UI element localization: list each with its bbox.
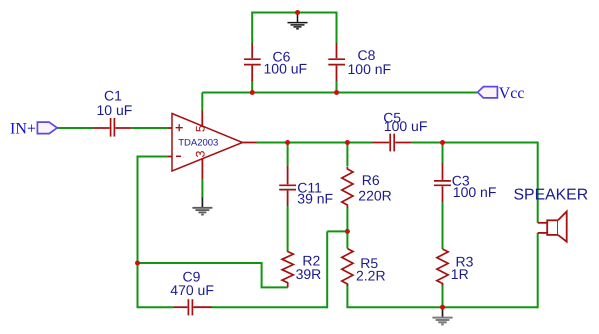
wire feedback horizontal to inverting input [138, 156, 168, 158]
svg-text:2.2R: 2.2R [356, 268, 386, 284]
wire output left segment [257, 142, 373, 144]
svg-text:R6: R6 [362, 172, 380, 188]
svg-text:100 nF: 100 nF [453, 184, 497, 200]
wire top loop right vertical [336, 12, 338, 44]
ground op-amp [192, 198, 212, 215]
capacitor C3 [434, 163, 451, 202]
wire pin5 riser [201, 93, 203, 111]
wire junction to R5 top [346, 231, 348, 248]
capacitor C9 [173, 299, 212, 315]
wire C1 to op-amp [132, 127, 168, 129]
wire input from port to C1 [58, 127, 94, 129]
svg-text:100 nF: 100 nF [348, 61, 392, 77]
svg-text:39 nF: 39 nF [297, 191, 333, 207]
resistor R6 [342, 167, 353, 208]
junction R6 R5 [345, 229, 350, 234]
wire Vcc rail [202, 92, 477, 94]
wire C9 right to riser [212, 306, 327, 308]
wire R5 bottom [346, 284, 348, 307]
wire C11 top [287, 142, 289, 167]
svg-text:470 uF: 470 uF [170, 282, 214, 298]
capacitor C8 [328, 43, 345, 81]
svg-text:1R: 1R [451, 266, 469, 282]
wire C6 bottom to Vcc rail [251, 81, 253, 93]
junction output C11 [285, 140, 290, 145]
svg-text:100 uF: 100 uF [264, 60, 308, 76]
wire output right segment [412, 142, 538, 144]
wire top ground loop horizontal [252, 12, 337, 14]
wire C3 to R3 [442, 202, 444, 249]
capacitor C5 [373, 134, 412, 152]
svg-text:10 uF: 10 uF [97, 102, 133, 118]
svg-text:220R: 220R [358, 188, 391, 204]
svg-text:IN+: IN+ [10, 120, 36, 137]
wire C9 left lead wire [137, 306, 174, 308]
capacitor C11 [279, 166, 296, 206]
junction output C3 [440, 140, 445, 145]
junction ground rail [440, 305, 445, 310]
junction C8 rail [334, 90, 339, 95]
op-amp U1 TDA2003 [167, 111, 256, 180]
wire jog down [261, 262, 263, 287]
ground bottom [432, 308, 452, 325]
wire R6 top [346, 142, 348, 167]
port IN+ [37, 122, 57, 134]
svg-text:Vcc: Vcc [499, 85, 525, 102]
junction feedback node [135, 261, 140, 266]
wire R6 bottom to junction [346, 208, 348, 232]
wire jog to R2 bottom [261, 286, 288, 288]
svg-text:SPEAKER: SPEAKER [514, 186, 589, 203]
wire bottom ground rail [346, 306, 537, 308]
junction output R6 [345, 140, 350, 145]
capacitor C6 [244, 43, 261, 81]
wire C9 riser up [326, 231, 328, 308]
svg-text:100 uF: 100 uF [384, 118, 428, 134]
wire speaker top drop [537, 142, 539, 223]
wire node A to R2 jog right [138, 262, 262, 264]
wire R3 bottom [442, 284, 444, 308]
junction C6 rail [250, 90, 255, 95]
wire C3 top [442, 142, 444, 164]
wire speaker bottom riser [537, 233, 539, 308]
wire C8 bottom to Vcc rail [336, 81, 338, 93]
wire top loop left vertical [251, 12, 253, 44]
svg-text:3: 3 [194, 150, 208, 157]
junction top ground [295, 10, 300, 15]
resistor R5 [342, 249, 353, 287]
wire pin3 to ground [201, 179, 203, 198]
wire node A down to C9 [137, 263, 139, 307]
wire riser to R6-R5 junction [327, 230, 347, 232]
svg-text:39R: 39R [296, 266, 322, 282]
wire feedback vertical [137, 156, 139, 264]
svg-text:5: 5 [194, 125, 208, 132]
capacitor C1 [94, 118, 132, 137]
wire C11 to R2 [287, 206, 289, 251]
svg-text:TDA2003: TDA2003 [178, 137, 218, 148]
resistor R2 [282, 251, 293, 288]
speaker LS1 [538, 212, 567, 242]
port Vcc [478, 87, 498, 98]
resistor R3 [437, 249, 448, 286]
ground top [288, 13, 308, 29]
